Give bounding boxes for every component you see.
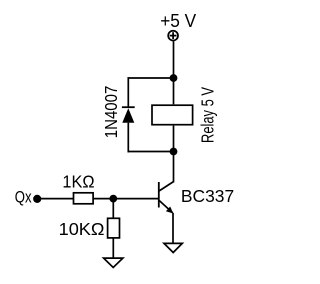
svg-text:10KΩ: 10KΩ bbox=[59, 219, 105, 239]
relay K1 coil box bbox=[152, 105, 193, 125]
wire diode anode down bbox=[127, 123, 129, 153]
Qx input terminal dot bbox=[33, 195, 41, 203]
wire resistor R1 to base node C bbox=[93, 198, 159, 200]
wire relay bottom to node B bbox=[173, 126, 175, 152]
svg-text:Relay 5 V: Relay 5 V bbox=[197, 87, 217, 143]
wire node B to collector bbox=[173, 152, 175, 183]
wire diode branch bottom to node B bbox=[128, 151, 174, 153]
wire emitter down to ground bbox=[172, 213, 174, 244]
svg-text:1N4007: 1N4007 bbox=[101, 86, 121, 139]
resistor R2 10K body bbox=[108, 218, 120, 238]
wire diode branch top vertical bbox=[127, 77, 129, 107]
wire supply to node A bbox=[173, 41, 175, 78]
svg-text:1KΩ: 1KΩ bbox=[62, 171, 94, 191]
ground symbol (R2) bbox=[104, 258, 123, 267]
wire resistor R2 to ground bbox=[112, 238, 114, 258]
+5V supply terminal bbox=[168, 31, 178, 41]
node C junction dot bbox=[109, 195, 117, 203]
svg-text:Qx: Qx bbox=[15, 189, 32, 207]
node B junction dot bbox=[170, 148, 178, 156]
transistor Q1 emitter lead bbox=[159, 201, 172, 213]
transistor Q1 emitter arrowhead bbox=[166, 207, 173, 214]
wire Qx to resistor R1 bbox=[37, 198, 73, 200]
svg-text:+5 V: +5 V bbox=[160, 11, 196, 31]
diode D1 1N4007 cathode bar bbox=[122, 106, 135, 108]
wire node A to diode branch top bbox=[128, 77, 174, 79]
node A junction dot bbox=[170, 74, 178, 82]
resistor R1 1K body bbox=[74, 193, 94, 204]
diode D1 1N4007 triangle bbox=[122, 108, 134, 123]
transistor Q1 BC337 collector lead bbox=[159, 182, 173, 191]
transistor Q1 base bar bbox=[158, 182, 160, 208]
wire node C down to resistor R2 bbox=[112, 199, 114, 219]
ground symbol (emitter) bbox=[164, 243, 182, 252]
svg-text:BC337: BC337 bbox=[181, 186, 234, 206]
wire node A to relay top bbox=[173, 78, 175, 104]
